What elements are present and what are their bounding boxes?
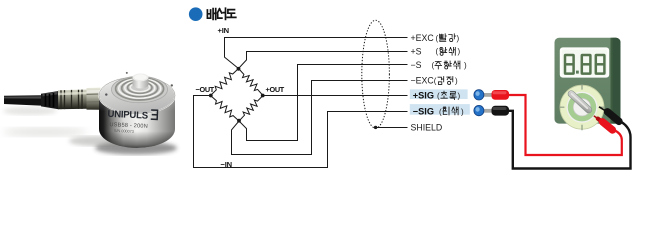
load cell cylinder wall xyxy=(99,95,175,148)
display digit 8 xyxy=(582,55,591,74)
svg-text:−EXC: −EXC xyxy=(411,76,435,86)
knob pointer xyxy=(567,89,593,114)
svg-text:+S: +S xyxy=(411,46,422,56)
svg-text:+IN: +IN xyxy=(218,26,229,35)
resistor R3 (bottom-left bridge arm) xyxy=(211,96,240,122)
node -IN junction dot xyxy=(237,119,241,123)
dial tick marks xyxy=(559,84,605,130)
load cell photo xyxy=(3,72,177,155)
svg-text:−IN: −IN xyxy=(221,160,232,169)
red probe wire xyxy=(509,95,622,155)
black probe wire xyxy=(509,111,631,169)
korean color names (drawn glyphs) xyxy=(435,34,460,115)
shield node dot xyxy=(374,126,377,129)
svg-text:(: ( xyxy=(434,76,437,85)
wire +IN to +EXC xyxy=(225,38,408,69)
초록 (green) row5 xyxy=(441,91,447,98)
wire -IN to -EXC xyxy=(232,81,408,155)
cable gland metallic xyxy=(58,90,87,110)
black probe xyxy=(599,107,619,122)
red probe xyxy=(594,116,613,130)
load cell top face xyxy=(99,77,175,114)
node -OUT junction dot xyxy=(209,94,213,98)
wire -IN to -S xyxy=(239,65,408,141)
display decimal point xyxy=(576,71,579,74)
terminal highlight +SIG xyxy=(410,89,468,99)
svg-text:(: ( xyxy=(436,47,439,56)
glyph 배 xyxy=(207,9,215,20)
주황색 (orange) row3 xyxy=(435,62,442,70)
gland hex nut xyxy=(87,88,101,110)
svg-text:+OUT: +OUT xyxy=(266,85,285,94)
wire -OUT to -SIG xyxy=(194,96,408,168)
UNIPULSE logo text xyxy=(107,108,158,135)
blue jack +SIG xyxy=(474,90,509,100)
cable strain relief xyxy=(41,91,59,109)
cable shield ellipse xyxy=(362,20,390,128)
흰색 (white) row6 xyxy=(443,107,449,115)
node +IN junction dot xyxy=(237,67,241,71)
multimeter body xyxy=(555,38,621,130)
wire +IN to +S xyxy=(239,52,408,69)
terminal highlight -SIG xyxy=(410,104,470,115)
floor shadow xyxy=(95,142,177,155)
검정 (black) row4 xyxy=(438,77,444,85)
svg-text:(: ( xyxy=(436,34,439,43)
dial center xyxy=(573,99,590,116)
svg-text:): ) xyxy=(464,61,467,70)
svg-text:(: ( xyxy=(439,107,442,116)
svg-text:): ) xyxy=(457,34,460,43)
svg-text:−S: −S xyxy=(411,60,422,70)
svg-text:UNIPULS: UNIPULS xyxy=(107,109,149,122)
svg-text:): ) xyxy=(455,76,458,85)
wire +OUT to +SIG xyxy=(263,95,408,97)
load cell cable xyxy=(4,95,43,106)
svg-text:−SIG: −SIG xyxy=(413,106,434,116)
glyph 도 xyxy=(227,10,236,18)
resistor R4 (bottom-right bridge arm) xyxy=(239,96,263,122)
red banana plug xyxy=(492,90,510,100)
display digit 8 xyxy=(565,55,604,74)
meter body dark side xyxy=(611,38,621,124)
resistor R1 (top-left bridge arm) xyxy=(211,69,239,96)
glyph 선 xyxy=(217,8,225,19)
빨강 (red) row1 xyxy=(440,34,447,42)
center button xyxy=(133,77,149,88)
resistor R2 (top-right bridge arm) xyxy=(239,69,264,96)
svg-text:): ) xyxy=(458,91,461,100)
top face grooved disc xyxy=(112,76,168,102)
header text 배선도 (drawn glyphs) xyxy=(207,8,235,19)
meter display xyxy=(560,47,609,77)
svg-text:(: ( xyxy=(437,91,440,100)
black banana plug xyxy=(492,106,510,116)
svg-text:SHIELD: SHIELD xyxy=(411,123,443,133)
dial inner disc xyxy=(566,92,597,123)
황색 (yellow) row2 xyxy=(440,47,447,55)
svg-text:): ) xyxy=(461,107,464,116)
svg-text:−OUT: −OUT xyxy=(196,85,215,94)
svg-text:): ) xyxy=(458,47,461,56)
groove rings xyxy=(116,78,164,100)
svg-text:(: ( xyxy=(432,61,435,70)
node +OUT junction dot xyxy=(261,94,265,98)
meter dial ring xyxy=(560,85,604,129)
header bullet xyxy=(189,7,203,21)
svg-text:+SIG: +SIG xyxy=(413,90,434,100)
parentheses for color names xyxy=(432,34,468,117)
wire SHIELD xyxy=(376,127,408,129)
logo reversed-E glyph xyxy=(151,110,158,119)
blue jack -SIG xyxy=(474,105,509,115)
wiring schematic xyxy=(194,20,408,167)
svg-text:+EXC: +EXC xyxy=(411,33,435,43)
rim bolt holes xyxy=(105,93,107,95)
display digit 8 xyxy=(596,55,605,74)
